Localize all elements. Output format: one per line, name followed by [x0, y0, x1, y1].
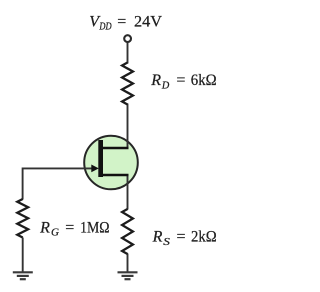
svg-text:R: R [150, 72, 161, 89]
wire: gate corner down to RG [22, 168, 24, 200]
terminal VDD [124, 35, 131, 42]
svg-text:D: D [161, 81, 170, 92]
svg-text:2kΩ: 2kΩ [191, 229, 217, 246]
resistor R_D zigzag [122, 63, 133, 105]
label VDD = 24V [89, 14, 162, 33]
svg-text:24V: 24V [134, 14, 162, 31]
svg-text:=: = [65, 219, 74, 236]
svg-text:R: R [152, 229, 163, 246]
transistor Q1 drain lead [101, 147, 129, 149]
wire: RD to Q1 drain [127, 104, 129, 148]
transistor Q1 channel bar [98, 140, 103, 177]
transistor Q1 gate arrowhead [91, 165, 99, 173]
svg-text:6kΩ: 6kΩ [191, 72, 217, 89]
resistor R_G zigzag [17, 199, 28, 238]
wire: Q1 source to RS [127, 176, 129, 210]
svg-text:S: S [163, 237, 170, 248]
transistor Q1 source lead [101, 174, 129, 176]
svg-text:R: R [39, 219, 50, 236]
label RS = 2k ohm [152, 229, 217, 248]
svg-text:=: = [177, 229, 186, 246]
svg-text:1MΩ: 1MΩ [80, 219, 110, 236]
label RD = 6k ohm [150, 72, 217, 91]
ground under RS [118, 272, 138, 279]
wire: gate horizontal [23, 167, 94, 169]
transistor Q1 body [84, 136, 138, 190]
ground under RG [13, 272, 33, 279]
svg-text:=: = [176, 72, 185, 89]
svg-text:G: G [51, 228, 59, 239]
svg-text:DD: DD [99, 22, 113, 33]
svg-text:=: = [117, 14, 126, 31]
wire: VDD terminal to RD [127, 43, 129, 64]
wire: RG to ground [22, 238, 24, 273]
wire: RS to ground [127, 254, 129, 273]
resistor R_S zigzag [122, 209, 133, 254]
label RG = 1M ohm [39, 219, 110, 238]
